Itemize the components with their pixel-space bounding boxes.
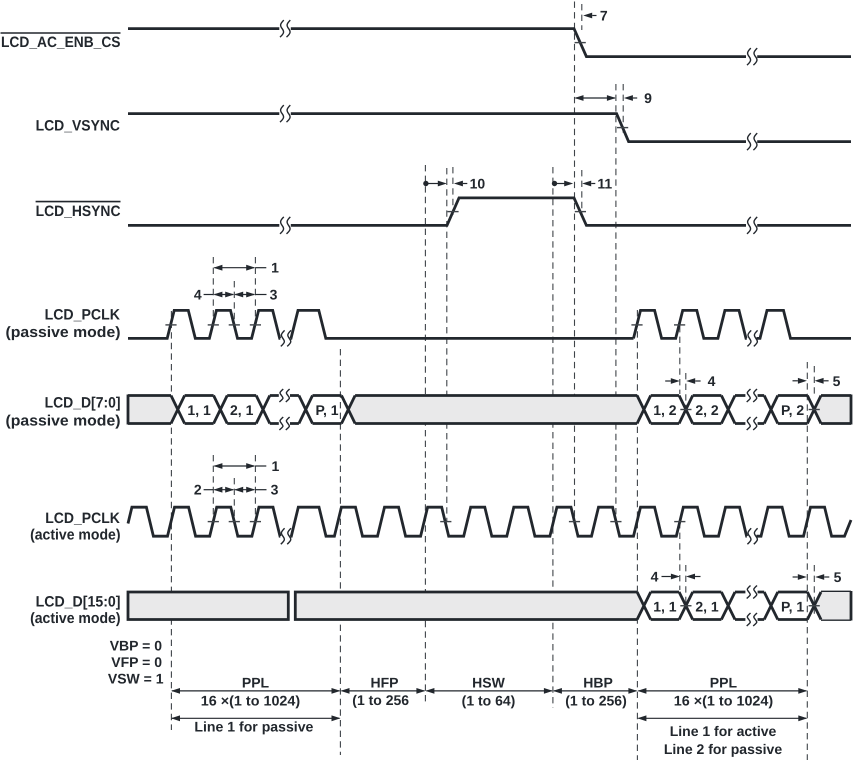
signal LCD_PCLK passive last pulse after break <box>757 310 852 338</box>
vertical dashed line x=234.3 passive clock dim (mid) <box>233 281 235 325</box>
bus transition X at x=814.2 <box>807 396 821 424</box>
svg-text:1, 1: 1, 1 <box>653 598 677 614</box>
dimension 9 arrow and label <box>624 95 633 101</box>
dimension arrow: Line 1 for passive <box>172 717 340 719</box>
svg-text:LCD_D[15:0]: LCD_D[15:0] <box>36 594 121 611</box>
vertical dashed line x=807.3 (last clock edge / PPL right) <box>806 362 808 760</box>
dimension 3 passive clock <box>235 294 254 296</box>
tick on LCD_HSYNC falling edge <box>575 211 586 213</box>
vertical dashed line x=615.9 (LCD_VSYNC fall) <box>615 84 617 522</box>
svg-text:(1 to 256: (1 to 256 <box>352 692 409 708</box>
tick on LCD_VSYNC falling edge <box>617 127 628 129</box>
svg-text:LCD_AC_ENB_CS: LCD_AC_ENB_CS <box>1 34 121 51</box>
svg-text:(1 to 64): (1 to 64) <box>462 693 516 709</box>
bus active segment 2 outline <box>295 591 851 621</box>
vertical dashed line x=679.8 passive segment (dim 4) <box>679 326 681 394</box>
dimension arrows row: PPL left <box>172 690 340 692</box>
vertical dashed line x=581.8 lower segment (dim 11) <box>581 170 583 215</box>
break symbol on LCD_HSYNC low segment right <box>747 217 751 234</box>
vertical dashed line x=814.3 passive short (dim 5) <box>813 366 815 395</box>
svg-text:3: 3 <box>271 482 279 498</box>
dimension 7 arrow and label <box>583 13 592 19</box>
svg-text:(passive mode): (passive mode) <box>6 413 121 430</box>
svg-text:2: 2 <box>194 482 202 498</box>
label LCD_AC_ENB_CS with overline <box>1 33 121 51</box>
break squiggles on right break cell <box>747 389 751 402</box>
signal LCD_PCLK passive waveform burst 2 <box>634 310 747 338</box>
svg-text:1, 1: 1, 1 <box>187 402 211 418</box>
signal LCD_AC_ENB_CS waveform <box>128 29 851 57</box>
vertical dashed line x=213.3 active clock dim <box>212 455 214 522</box>
svg-text:LCD_VSYNC: LCD_VSYNC <box>36 118 121 135</box>
bus active transition X at x=685.9 <box>679 592 693 620</box>
break symbol on LCD_PCLK active right <box>747 528 751 544</box>
vertical dashed line x=234.3 active clock dim (mid) <box>233 478 235 522</box>
svg-text:5: 5 <box>834 569 842 585</box>
vertical dashed line x=213.3 passive clock dim <box>212 257 214 325</box>
svg-text:LCD_PCLK: LCD_PCLK <box>45 307 121 324</box>
vertical dashed line x=425.4 (HFP right / HSW left) <box>424 165 426 703</box>
bus active transition X at x=771.0 <box>764 592 778 620</box>
tick on active bus X at 685.9 <box>680 605 691 607</box>
bus shaded region middle <box>348 396 644 424</box>
bus transition X at x=348.3 <box>342 396 356 424</box>
dimension 1 active clock period <box>214 465 254 467</box>
vertical dashed line x=814.3 active short (dim 5) <box>813 565 815 616</box>
svg-text:HBP: HBP <box>583 674 613 690</box>
svg-text:PPL: PPL <box>710 674 738 690</box>
svg-text:2, 2: 2, 2 <box>695 402 719 418</box>
bus top edge <box>128 394 851 397</box>
svg-text:10: 10 <box>470 176 486 192</box>
svg-text:VBP = 0: VBP = 0 <box>110 638 162 654</box>
signal LCD_PCLK passive waveform burst 1 <box>128 310 280 338</box>
bus active transition X at x=643.9 <box>637 592 651 620</box>
bus active segment 1 shaded <box>128 592 288 620</box>
svg-text:(passive mode): (passive mode) <box>6 324 121 341</box>
dimension 3 active clock <box>235 489 254 491</box>
svg-text:4: 4 <box>651 569 659 585</box>
svg-text:5: 5 <box>833 373 841 389</box>
tick on passive bus X at 685.9 <box>680 409 691 411</box>
dimension arrows row: HBP <box>554 690 637 692</box>
vertical dashed line x=637.4 (HBP right / PPL left) <box>636 310 638 760</box>
bus shaded region left <box>128 396 178 424</box>
bus transition X at x=728.2 <box>721 396 735 424</box>
svg-text:11: 11 <box>597 176 612 192</box>
svg-text:2, 1: 2, 1 <box>230 402 254 418</box>
vertical dashed line x=581.8 upper segment (dim 7) <box>581 4 583 30</box>
bus transition X at x=263.0 <box>256 396 270 424</box>
svg-text:LCD_D[7:0]: LCD_D[7:0] <box>45 395 121 412</box>
break symbol on LCD_PCLK passive left <box>281 330 285 346</box>
bus active right end cap <box>850 591 853 621</box>
vertical dashed line x=171 (first pixel clock edge / PPL left) <box>170 311 172 730</box>
break squiggles on active break cell <box>747 586 751 599</box>
break squiggles on left break cell <box>279 389 283 402</box>
bus right end cap <box>850 395 853 425</box>
bus transition X at x=685.9 <box>679 396 693 424</box>
bus shaded region right <box>814 396 851 424</box>
dimension arrow: Line 1 for active <box>638 717 806 719</box>
bus transition X at x=643.9 <box>637 396 651 424</box>
break symbol on LCD_VSYNC low segment <box>747 133 751 150</box>
vertical dashed line x=255.4 passive clock dim <box>254 257 256 325</box>
vertical dashed line x=340.5 (PPL right / HFP left) <box>339 349 341 755</box>
svg-text:1: 1 <box>272 458 280 474</box>
break symbol on LCD_AC_ENB_CS low segment <box>747 48 751 65</box>
dimension 1 passive clock period <box>214 267 254 269</box>
bus active transition X at x=728.2 <box>721 592 735 620</box>
break symbol on LCD_AC_ENB_CS high segment <box>280 20 284 37</box>
svg-text:Line 1 for passive: Line 1 for passive <box>194 719 313 735</box>
svg-text:VSW = 1: VSW = 1 <box>108 670 164 686</box>
bus active transition X at x=814.2 <box>807 592 821 620</box>
vertical dashed line x=452.9 (HSYNC rise mid, dim 10) <box>452 167 454 215</box>
signal LCD_PCLK active waveform segment 3 after break <box>757 507 852 536</box>
svg-text:Line 2 for passive: Line 2 for passive <box>664 741 782 757</box>
bus active segment 2 shaded <box>295 592 644 620</box>
break symbol on LCD_HSYNC low segment left <box>280 217 284 234</box>
break symbol on LCD_PCLK active left <box>281 528 285 544</box>
signal LCD_PCLK passive pulse after break and long low <box>290 310 633 338</box>
label LCD_HSYNC with overline <box>36 202 121 220</box>
dimension 4 passive data <box>665 380 671 382</box>
vertical dashed line x=679.8 active segment (dim 4) <box>679 522 681 590</box>
dimension 10 dot and arrow <box>423 181 428 186</box>
vertical dashed line x=623.2 (dim 9) <box>622 84 624 135</box>
svg-text:3: 3 <box>270 287 278 303</box>
dimension arrows row: HFP <box>342 690 425 692</box>
dimension 5 passive data <box>793 380 798 382</box>
svg-text:2, 1: 2, 1 <box>695 598 719 614</box>
svg-text:16 ×(1 to 1024): 16 ×(1 to 1024) <box>201 693 300 709</box>
vertical dashed line x=255.4 active clock dim <box>254 455 256 522</box>
dimension 9 double arrow between AC fall and VSYNC fall <box>576 97 615 99</box>
dimension arrows row: HSW <box>426 690 552 692</box>
dimension 11 dot and arrow <box>552 181 557 186</box>
svg-text:HSW: HSW <box>472 674 505 690</box>
dimension 5 active data <box>793 576 798 578</box>
bus transition X at x=305.7 <box>299 396 313 424</box>
dimension 11 right arrow and label <box>582 181 591 187</box>
svg-text:HFP: HFP <box>371 674 399 690</box>
signal LCD_PCLK active waveform segment 2 <box>290 507 747 536</box>
tick on LCD_HSYNC rising edge <box>447 211 458 213</box>
vertical dashed line x=552.9 (HSW right / HBP left) <box>552 167 554 708</box>
svg-text:4: 4 <box>194 287 202 303</box>
svg-text:(active mode): (active mode) <box>30 527 120 544</box>
svg-text:16 ×(1 to 1024): 16 ×(1 to 1024) <box>674 693 773 709</box>
svg-text:VFP = 0: VFP = 0 <box>111 654 162 670</box>
tick on active bus X at 814.2 <box>809 605 820 607</box>
bus transition X at x=220.4 <box>214 396 228 424</box>
vertical dashed line x=685.8 passive short (dim 4) <box>685 373 687 409</box>
svg-text:P, 2: P, 2 <box>781 402 804 418</box>
vertical dashed line x=685.8 active short (dim 4) <box>685 565 687 606</box>
svg-text:9: 9 <box>644 90 652 106</box>
svg-text:LCD_PCLK: LCD_PCLK <box>45 510 120 527</box>
svg-text:1: 1 <box>271 260 279 276</box>
bus bottom edge <box>128 422 851 425</box>
bus active segment 1 outline <box>128 591 288 621</box>
ticks on LCD_PCLK passive edges <box>165 324 176 326</box>
svg-text:LCD_HSYNC: LCD_HSYNC <box>36 203 121 220</box>
bus active shaded right <box>814 592 851 620</box>
signal LCD_PCLK active waveform segment 1 <box>128 507 280 536</box>
svg-text:P, 1: P, 1 <box>315 402 338 418</box>
svg-text:P, 1: P, 1 <box>781 598 804 614</box>
bus transition X at x=771.0 <box>764 396 778 424</box>
vertical dashed line x=574.5 (LCD_AC_ENB_CS fall) <box>574 2 576 520</box>
svg-text:PPL: PPL <box>242 674 270 690</box>
tick on passive bus X at 814.2 <box>809 409 820 411</box>
ticks on LCD_PCLK active edges <box>208 521 219 523</box>
svg-text:7: 7 <box>600 8 608 24</box>
dimension 10 right arrow and label <box>454 181 463 187</box>
svg-text:(1 to 256): (1 to 256) <box>565 693 626 709</box>
svg-text:4: 4 <box>708 373 716 389</box>
bus left end cap <box>127 395 130 425</box>
break symbol on LCD_VSYNC high segment <box>280 105 284 122</box>
vertical dashed line x=446.8 (HSYNC rise start) <box>446 168 448 522</box>
bus transition X at x=177.8 <box>171 396 185 424</box>
svg-text:1, 2: 1, 2 <box>653 402 677 418</box>
dimension arrows row: PPL right <box>638 690 806 692</box>
signal LCD_VSYNC waveform <box>128 114 851 142</box>
signal LCD_HSYNC waveform <box>128 198 851 226</box>
svg-text:Line 1 for active: Line 1 for active <box>670 723 777 739</box>
tick on LCD_AC_ENB_CS falling edge <box>575 42 586 44</box>
svg-text:(active mode): (active mode) <box>30 610 120 627</box>
break symbol on LCD_PCLK passive right <box>747 330 751 346</box>
